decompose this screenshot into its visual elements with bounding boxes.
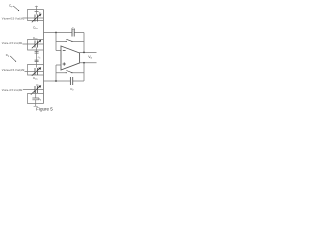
switch SW1 line — [56, 41, 84, 43]
capacitor C2 plates — [70, 77, 72, 85]
op-amp minus mark — [63, 49, 66, 51]
op-amp U1 body — [61, 46, 80, 70]
wire rail top (to C1) — [44, 32, 85, 34]
svg-text:Figure 5: Figure 5 — [36, 107, 53, 112]
varactor C1b arrow — [32, 41, 40, 48]
wire output top — [80, 51, 97, 53]
wire output bottom — [80, 62, 97, 64]
varactor box D4 outline — [28, 94, 44, 104]
wire vertical x56 top — [55, 33, 57, 51]
stub S4 with internal cap — [35, 90, 37, 106]
varactor C2b arrow — [31, 87, 40, 95]
switch SW2 line — [56, 72, 84, 74]
wire input 2 — [23, 43, 44, 45]
node n2 dot — [55, 80, 57, 82]
op-amp plus mark — [63, 62, 66, 65]
switch SW1 lever — [66, 39, 72, 41]
svg-text:V tune+0.5·V od,M2: V tune+0.5·V od,M2 — [2, 68, 25, 72]
switch SW2 lever — [66, 71, 72, 73]
wire rail bottom (to C2) — [44, 80, 85, 82]
varactor C2b (on open wire) plates — [23, 89, 44, 91]
capacitor C1 plates — [72, 29, 74, 37]
node n1 dot — [55, 32, 57, 34]
wire input 3 — [25, 71, 44, 73]
svg-text:V tune+0.5·V od,M1: V tune+0.5·V od,M1 — [2, 16, 25, 20]
svg-text:V tune−0.5·V od,M1: V tune−0.5·V od,M1 — [2, 41, 23, 45]
stub S2 series caps between box2 and box3 — [35, 48, 37, 68]
varactor box D1 outline — [28, 10, 44, 21]
node bus (right vertical net joining varactor boxes) — [43, 10, 45, 104]
varactor C2a plates — [35, 68, 37, 75]
svg-text:V tune−0.5·V od,M2: V tune−0.5·V od,M2 — [2, 88, 23, 92]
wire vertical x56 bottom — [55, 65, 57, 81]
varactor box D2 outline — [28, 40, 44, 51]
wire op-amp input top — [56, 50, 61, 52]
stub S1 with parasitic cap — [35, 6, 37, 15]
wire input 1 — [24, 17, 44, 19]
wire vertical x84 bottom — [83, 63, 85, 81]
varactor box D3 outline — [28, 65, 44, 76]
node out2 dot — [83, 62, 85, 64]
varactor C1a arrow — [32, 15, 40, 22]
node out1 dot — [83, 52, 85, 54]
varactor C2a arrow — [32, 69, 40, 76]
varactor C1a plates — [35, 15, 37, 22]
wire vertical x84 top — [83, 33, 85, 53]
varactor C1b plates — [35, 41, 37, 48]
wire op-amp input bottom — [56, 64, 61, 66]
